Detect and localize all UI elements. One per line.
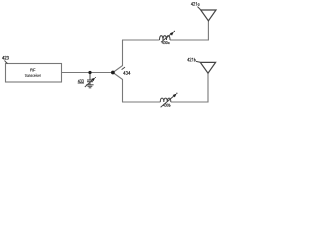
svg-text:RF: RF [30,68,36,73]
svg-text:transceiver: transceiver [25,73,41,78]
